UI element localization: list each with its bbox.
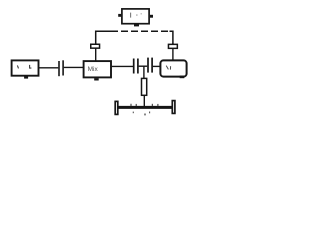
mixer box bbox=[84, 61, 111, 80]
output box label bbox=[166, 66, 170, 70]
input box label bbox=[17, 65, 31, 69]
wire: dashed gang link elbow left bbox=[96, 31, 111, 43]
wire: dashed gang link elbow right bbox=[170, 31, 173, 43]
rod lower tick right bbox=[149, 112, 151, 114]
node mark below rod bbox=[144, 114, 146, 116]
rod winding ticks bbox=[131, 104, 158, 106]
oscillator label bbox=[131, 13, 142, 18]
rod end cap left bbox=[115, 101, 118, 114]
tuning element box right bbox=[168, 44, 177, 48]
wire: mixer to C2 bbox=[112, 65, 133, 67]
capacitor C1 bbox=[59, 60, 63, 76]
rod end cap right bbox=[172, 101, 175, 114]
rod lower tick left bbox=[132, 112, 134, 114]
capacitor C2 bbox=[134, 59, 138, 74]
wire: right vertical to output box bbox=[172, 43, 174, 61]
wire: C1 to mixer bbox=[64, 66, 84, 68]
capacitor C3 bbox=[148, 58, 152, 73]
node: junction to R1 bbox=[143, 66, 145, 78]
wire: input box to C1 bbox=[39, 67, 59, 69]
resistor R1 bbox=[142, 78, 147, 95]
tuning element box left bbox=[91, 44, 100, 48]
ferrite rod antenna bar bbox=[118, 106, 172, 109]
wire: R1 to rod bbox=[143, 96, 145, 108]
svg-text:Mix: Mix bbox=[88, 66, 99, 73]
oscillator box U1 bbox=[118, 9, 153, 27]
input box left bbox=[12, 60, 39, 78]
wire: dashed gang link bbox=[111, 30, 170, 32]
wire: C3 to output box bbox=[153, 65, 161, 67]
output box bbox=[160, 60, 186, 78]
wire: C2 to C3 bbox=[139, 65, 148, 67]
wire: left vertical to mixer bbox=[95, 43, 97, 62]
